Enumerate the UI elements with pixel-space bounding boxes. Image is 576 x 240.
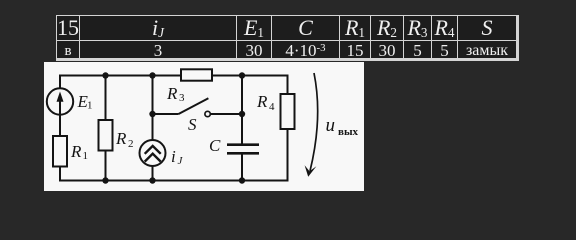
wire iJ branch <box>152 76 154 141</box>
capacitor C plates <box>227 143 259 146</box>
source iJ chevrons <box>145 146 161 154</box>
data table <box>56 15 519 61</box>
u_vyh arrowhead <box>305 165 317 177</box>
switch S blade <box>179 98 209 114</box>
source iJ <box>140 140 166 166</box>
node top iJ <box>149 72 155 78</box>
node switch right <box>239 111 245 117</box>
svg-text:2: 2 <box>128 138 134 150</box>
resistor R4 <box>281 94 295 129</box>
wire C branch <box>241 76 243 144</box>
svg-text:R: R <box>256 92 268 111</box>
svg-text:J: J <box>178 155 184 167</box>
resistor R1 <box>53 136 67 167</box>
node bottom R2 <box>102 177 108 183</box>
svg-text:R: R <box>166 84 178 103</box>
svg-text:4: 4 <box>269 101 275 113</box>
wire R2 branch <box>105 76 107 121</box>
node switch left <box>149 111 155 117</box>
circuit white panel <box>44 62 364 191</box>
svg-text:1: 1 <box>83 150 89 162</box>
wire top rail <box>59 75 289 77</box>
svg-text:вых: вых <box>338 126 359 138</box>
svg-text:R: R <box>70 142 82 161</box>
source E1 <box>47 88 73 114</box>
node bottom iJ <box>149 177 155 183</box>
switch S contact <box>205 111 210 116</box>
resistor R2 <box>99 120 113 151</box>
node bottom C <box>239 177 245 183</box>
wire bottom rail <box>59 180 289 182</box>
source E1 arrow <box>59 95 61 114</box>
u_vyh arrow arc <box>310 73 318 171</box>
node top C <box>239 72 245 78</box>
svg-text:3: 3 <box>179 92 185 104</box>
svg-text:C: C <box>209 136 221 155</box>
node top R2 <box>102 72 108 78</box>
resistor R3 <box>181 69 212 80</box>
svg-text:i: i <box>171 147 176 166</box>
wire switch branch left <box>153 113 179 115</box>
svg-text:1: 1 <box>87 100 93 112</box>
svg-text:u: u <box>326 115 336 136</box>
wire switch branch right <box>211 113 242 115</box>
wire left branch <box>59 75 61 89</box>
wire R4 branch <box>287 75 289 95</box>
svg-text:S: S <box>188 115 197 134</box>
svg-text:R: R <box>115 129 127 148</box>
